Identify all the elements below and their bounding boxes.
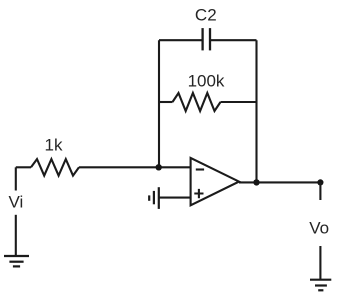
junction node output <box>253 179 259 185</box>
svg-text:1k: 1k <box>45 136 63 155</box>
wire C2 right lead <box>210 39 257 41</box>
label Vo <box>309 219 329 238</box>
svg-text:Vi: Vi <box>9 192 24 211</box>
wire C2 left lead <box>159 39 203 41</box>
ground GND3 (Vo) <box>310 280 331 291</box>
capacitor C2 left plate <box>201 28 203 50</box>
wire Vi upper stub <box>15 167 17 190</box>
wire Vi lower <box>15 215 17 256</box>
wire 1k left lead <box>16 166 31 168</box>
wire 100k left lead <box>159 101 173 103</box>
wire feedback left vertical <box>158 40 160 167</box>
wire 1k right lead to inverting input <box>79 166 191 168</box>
svg-text:C2: C2 <box>195 6 217 25</box>
label 1k <box>45 136 63 155</box>
ground GND2 (non-inverting) <box>149 187 159 209</box>
ground GND1 (Vi) <box>4 256 29 266</box>
wire non-inverting input <box>159 197 191 199</box>
svg-text:100k: 100k <box>188 72 225 91</box>
wire output <box>239 181 320 183</box>
svg-text:Vo: Vo <box>309 219 329 238</box>
wire 100k right lead <box>221 101 257 103</box>
wire Vo lower <box>319 246 321 280</box>
op-amp minus sign <box>196 168 204 170</box>
label 100k <box>188 72 225 91</box>
label C2 <box>195 6 217 25</box>
op-amp plus sign <box>194 189 203 198</box>
junction node inverting input <box>156 164 162 170</box>
wire feedback right vertical <box>255 40 257 182</box>
capacitor C2 right plate <box>209 28 211 50</box>
resistor R2 100k <box>173 93 221 111</box>
resistor R1 1k <box>31 159 79 176</box>
wire Vo upper stub <box>319 182 321 200</box>
op-amp U1 <box>191 158 239 205</box>
junction node Vo tap <box>317 179 323 185</box>
label Vi <box>9 192 24 211</box>
